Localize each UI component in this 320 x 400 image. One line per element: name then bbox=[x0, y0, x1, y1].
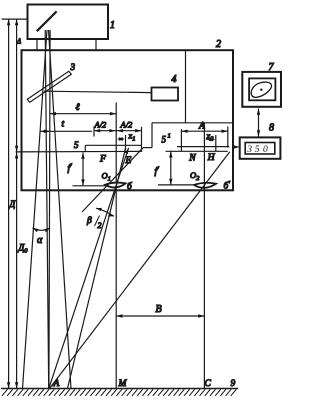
svg-text:F: F bbox=[99, 155, 106, 165]
mirror inside box 1 bbox=[37, 11, 57, 31]
line to detector 4 bbox=[44, 91, 152, 92]
ground hatching bbox=[2, 389, 236, 396]
ray A-O2 bbox=[50, 152, 230, 389]
blob in box 7 bbox=[251, 82, 271, 97]
svg-text:A/2: A/2 bbox=[120, 120, 134, 130]
svg-text:2: 2 bbox=[216, 39, 221, 50]
svg-text:t: t bbox=[62, 120, 65, 130]
svg-text:Δ: Δ bbox=[16, 38, 21, 46]
lens O2 bbox=[194, 183, 216, 188]
box 4 (detector) bbox=[152, 88, 179, 101]
optical axis 2 bbox=[203, 123, 205, 389]
beam edge L4 (diverging right) bbox=[49, 30, 72, 389]
lens 5-1 mount plane bbox=[177, 146, 229, 148]
svg-text:5: 5 bbox=[74, 140, 79, 150]
beam edge L3 bbox=[49, 30, 50, 389]
ground line 9 bbox=[1, 388, 238, 390]
box 8 outer (digital display) bbox=[240, 137, 281, 158]
lens O1 bbox=[105, 183, 126, 188]
beam edge L1 (diverging left) bbox=[23, 30, 48, 389]
ray marginal through lens 5 bbox=[82, 147, 144, 212]
dimension B bbox=[116, 314, 204, 317]
dimension line D (full height) bbox=[7, 19, 10, 388]
mirror 3 (tilted plate) bbox=[27, 71, 71, 102]
alpha angle arc bbox=[33, 228, 51, 232]
svg-text:N: N bbox=[188, 154, 196, 164]
ray E through O1 bbox=[68, 148, 126, 388]
svg-text:A: A bbox=[53, 379, 60, 389]
label beta/2 bbox=[86, 216, 102, 231]
ray A-O1 bbox=[49, 148, 129, 389]
lens 5-1 mount lower line bbox=[166, 150, 228, 152]
arrow between box 7 and box 8 bbox=[257, 109, 260, 137]
internal partition bbox=[185, 50, 187, 123]
digits 350 bbox=[246, 145, 268, 155]
bracket 5-1 top line bbox=[152, 122, 233, 124]
dimension A/2 + A/2 bbox=[94, 127, 142, 152]
svg-text:9: 9 bbox=[231, 379, 236, 389]
dimension f' left bbox=[81, 153, 84, 186]
dimension line Delta (upper segment) bbox=[15, 19, 18, 152]
svg-text:4: 4 bbox=[172, 74, 177, 85]
dimension l (script ell) bbox=[50, 112, 116, 115]
svg-text:ℓ: ℓ bbox=[76, 102, 80, 113]
svg-text:8: 8 bbox=[269, 123, 274, 134]
svg-text:5: 5 bbox=[255, 145, 260, 155]
svg-text:β: β bbox=[86, 216, 92, 226]
svg-text:B: B bbox=[156, 304, 162, 315]
svg-text:0: 0 bbox=[263, 145, 268, 155]
dimension f' right bbox=[169, 151, 172, 185]
box 7 outer (display unit) bbox=[242, 72, 281, 107]
svg-text:A/2: A/2 bbox=[94, 120, 108, 130]
svg-text:H: H bbox=[207, 153, 216, 163]
dimension x1 bbox=[117, 135, 126, 151]
arrow from box 2 into box 8 bbox=[233, 145, 240, 148]
optical axis 1 bbox=[115, 103, 117, 389]
box 1 (laser unit) bbox=[28, 5, 109, 40]
beam edge L2 bbox=[45, 30, 49, 389]
leg right between box1 and box2 bbox=[95, 39, 97, 50]
reference level line top-left bbox=[2, 18, 28, 20]
svg-text:2: 2 bbox=[98, 221, 102, 230]
lens 5 mount plane bbox=[85, 144, 142, 146]
dimension x2 bbox=[205, 135, 216, 151]
svg-text:1: 1 bbox=[110, 20, 115, 31]
dot in box 7 bbox=[260, 89, 262, 91]
svg-text:3: 3 bbox=[70, 62, 76, 72]
box 8 inner bbox=[245, 143, 275, 155]
image plane line right bbox=[158, 184, 194, 186]
dimension t bbox=[40, 130, 92, 133]
dimension A (right channel) bbox=[181, 127, 227, 152]
svg-text:α: α bbox=[37, 235, 43, 246]
bracket 5-1 foot bbox=[144, 147, 153, 149]
leg left between box1 and box2 bbox=[36, 39, 38, 50]
beta/2 angle arc bbox=[96, 208, 114, 217]
image plane line left bbox=[73, 185, 106, 187]
svg-text:C: C bbox=[205, 379, 212, 389]
dimension line D0 (lower segment) bbox=[15, 152, 18, 388]
svg-text:3: 3 bbox=[246, 145, 252, 155]
bracket 5-1 step bbox=[151, 123, 153, 148]
box 7 inner bbox=[249, 78, 275, 100]
lens 5 mount step bbox=[84, 145, 86, 152]
lens 5 mount lower line bbox=[16, 150, 142, 153]
svg-text:M: M bbox=[118, 379, 128, 389]
box 2 (main housing) bbox=[22, 50, 234, 190]
